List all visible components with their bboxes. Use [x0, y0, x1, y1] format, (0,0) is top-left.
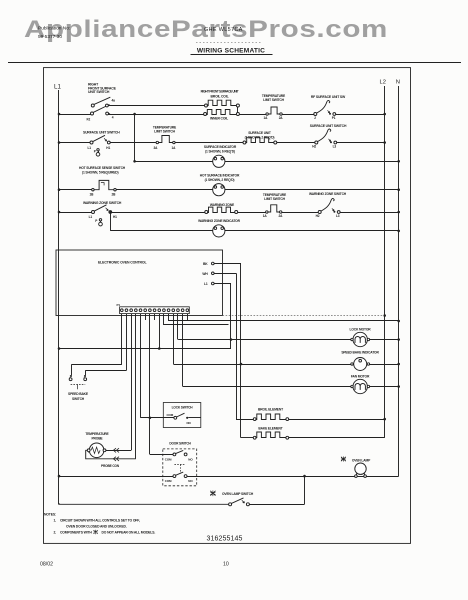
svg-text:SPEED BAKE: SPEED BAKE [68, 392, 89, 396]
svg-text:GHE WL57CA: GHE WL57CA [204, 27, 243, 33]
footer date [40, 562, 53, 568]
wire L1 rail [58, 90, 60, 504]
svg-text:INNER COIL: INNER COIL [210, 116, 228, 120]
svg-text:TEMPERATURE: TEMPERATURE [85, 432, 109, 436]
wire coil to limit switch row5 [238, 212, 266, 214]
wire speed bake contact B [85, 370, 87, 375]
connector probe lower [113, 457, 119, 461]
lamp oven lamp [355, 463, 367, 477]
terminal WH [202, 272, 214, 276]
wire L1 rail to eoc L1 [58, 347, 231, 350]
svg-text:LIMIT SWITCH: LIMIT SWITCH [264, 197, 285, 201]
wire drop stub t14 [187, 314, 189, 321]
label door switch [169, 442, 191, 446]
svg-text:N: N [396, 80, 400, 86]
terminal P stub row2 [96, 149, 100, 157]
svg-text:BAKE ELEMENT: BAKE ELEMENT [258, 427, 282, 431]
wire coil merge [237, 107, 239, 113]
wire L1 to sense switch [58, 188, 92, 191]
wire BK to drop [214, 263, 241, 265]
svg-text:BK: BK [203, 262, 208, 266]
wire drop to speed bake indicator row [173, 314, 175, 365]
wire lamp branch vertical [304, 476, 306, 504]
label temperature probe [85, 432, 109, 440]
wire door switch to N [187, 476, 399, 478]
svg-text:L3: L3 [333, 145, 337, 149]
wire BK corner to bake [241, 437, 253, 439]
wire drop to fan motor row [182, 314, 184, 387]
wire drop WH vertical [236, 273, 238, 419]
svg-text:WARNING ZONE INDICATOR: WARNING ZONE INDICATOR [198, 219, 240, 223]
switch surface unit switch L1-P-H1 [88, 135, 111, 153]
svg-text:F2: F2 [87, 117, 91, 121]
svg-text:Publication No:: Publication No: [38, 26, 70, 32]
svg-text:LIMIT SWITCH: LIMIT SWITCH [154, 130, 175, 134]
label lock switch [172, 406, 194, 410]
svg-text:P1: P1 [332, 116, 336, 120]
junction lock-door feed [149, 417, 152, 420]
label warning zone switch right [309, 192, 347, 196]
lamp surface indicator [213, 155, 225, 167]
svg-text:10: 10 [223, 562, 229, 568]
svg-text:WH: WH [202, 272, 208, 276]
svg-text:PROBE: PROBE [92, 437, 104, 441]
wire switch to inner coil [109, 114, 204, 115]
wire WH to drop [214, 273, 236, 275]
heater inner coil [204, 110, 240, 116]
svg-text:H1: H1 [106, 146, 110, 150]
switch oven lamp switch [229, 498, 250, 506]
label inner coil [210, 116, 228, 120]
wire L1 eoc to drop [214, 283, 231, 285]
svg-text:WARNING ZONE: WARNING ZONE [210, 203, 235, 207]
publication number text [38, 26, 70, 41]
terminal BK [203, 262, 214, 266]
switch door switch lower [165, 472, 194, 483]
junction oven lamp switch branch [303, 475, 306, 478]
label temperature limit switch row2 [153, 126, 177, 134]
wire coils to limit switch [239, 114, 265, 116]
svg-text:COM: COM [165, 479, 172, 483]
svg-text:59 5377 30: 59 5377 30 [38, 34, 62, 40]
part number 316255145 [207, 536, 243, 543]
label hot surface indicator [200, 174, 240, 182]
switch door switch upper [165, 450, 194, 461]
motor lock motor [351, 332, 370, 346]
wire sense switch to hot surface indicator [116, 189, 213, 191]
wire L1 to switch F2 [58, 113, 91, 116]
wire limit switch to surface unit coil [175, 142, 243, 144]
wire broil to L2 [289, 418, 386, 421]
wire switch to broil coil [108, 105, 204, 107]
model number text [204, 27, 243, 33]
label oven lamp [352, 458, 371, 462]
connector strip P1 [117, 303, 190, 314]
wire dashed eoc to L2 [223, 314, 387, 317]
wire N rail [398, 86, 400, 476]
wire drop to N row [169, 314, 401, 323]
wire speed bake indicator row [173, 363, 400, 366]
svg-text:L1: L1 [204, 282, 208, 286]
junction speed bake row [240, 363, 243, 366]
wire drop to row3 [134, 114, 136, 161]
wire H1 to warning zone coil [112, 212, 205, 214]
resistor temperature probe [87, 443, 106, 458]
terminal P stub row5 [99, 219, 103, 226]
wire row6 from H1 drop [111, 230, 213, 232]
svg-text:L3: L3 [336, 214, 340, 218]
node L2 label [380, 80, 386, 86]
svg-text:OVEN LAMP: OVEN LAMP [352, 458, 371, 462]
label surface unit switch right [310, 124, 347, 128]
svg-text:RIGHT FRONT SURFACE UNIT: RIGHT FRONT SURFACE UNIT [201, 89, 239, 93]
lock switch box [163, 403, 201, 428]
wire L1 to door switch [59, 476, 173, 478]
switch F2 right front surface unit switch [87, 97, 116, 121]
heater warning zone coil [205, 207, 238, 213]
svg-text:4a: 4a [112, 99, 116, 103]
svg-text:LOCK SWITCH: LOCK SWITCH [172, 406, 194, 410]
switch surface unit switch H2-L3 [312, 129, 336, 149]
junction lock motor row [230, 338, 233, 341]
svg-text:2.: 2. [54, 531, 57, 535]
wire drop door switch feed [150, 314, 174, 455]
label right front surface unit broil coil [201, 89, 239, 98]
notes text [44, 512, 155, 534]
svg-text:LOCK MOTOR: LOCK MOTOR [350, 328, 372, 332]
wire to L2 row2 [337, 141, 386, 144]
svg-text:OVEN LAMP SWITCH: OVEN LAMP SWITCH [222, 492, 254, 496]
svg-text:WARNING ZONE SWITCH: WARNING ZONE SWITCH [309, 192, 347, 196]
wire drop lock switch feed [141, 314, 174, 418]
svg-text:SURFACE INDICATOR: SURFACE INDICATOR [204, 145, 237, 149]
connector probe upper [113, 448, 119, 452]
label bake element [258, 427, 282, 431]
svg-text:OVEN DOOR CLOSED AND UNLOCKED.: OVEN DOOR CLOSED AND UNLOCKED. [66, 524, 127, 528]
label temperature limit switch row5 [263, 193, 287, 201]
label speed bake indicator [341, 350, 379, 354]
svg-text:L2: L2 [380, 80, 386, 86]
label broil element [258, 407, 283, 411]
label surface indicator [204, 145, 237, 153]
heater bake element [253, 432, 288, 439]
wire drop probe upper [131, 314, 133, 451]
link door switch [174, 464, 185, 473]
switch RF surface unit sw [314, 101, 336, 120]
label hot surface sense switch [79, 166, 126, 174]
door switch box [163, 449, 197, 486]
svg-text:RF SURFACE UNIT SW: RF SURFACE UNIT SW [311, 95, 346, 99]
schematic border frame [44, 68, 411, 544]
junction L1 bottom wire [58, 475, 61, 478]
terminal L1 eoc [204, 282, 214, 286]
wire drop to L1 eoc wire [159, 314, 161, 349]
svg-text:(1 SHOWN, 2 REQ'D): (1 SHOWN, 2 REQ'D) [205, 178, 235, 182]
heater broil element [253, 414, 288, 421]
wire drop probe lower [135, 314, 137, 459]
svg-text:SWITCH: SWITCH [72, 397, 85, 401]
svg-text:PROBE CON: PROBE CON [101, 464, 120, 468]
wire limit switch to RF switch [282, 114, 314, 116]
wire drop stub t7 [154, 314, 156, 321]
link speed bake switch [71, 384, 86, 389]
svg-text:L1: L1 [54, 84, 61, 91]
footer page number [223, 562, 229, 568]
wire to N row5 [340, 211, 400, 214]
svg-text:WARNING ZONE SWITCH: WARNING ZONE SWITCH [83, 201, 122, 205]
label warning zone switch left [83, 201, 122, 205]
wire row3 to indicator [135, 161, 213, 163]
svg-text:L1: L1 [89, 215, 93, 219]
label probe con [101, 464, 120, 468]
switch warning zone switch H2-L3 [316, 199, 341, 218]
wire limit switch to warning zone switch right [282, 212, 318, 214]
watermark AppliancePartsPros.com [24, 17, 388, 43]
svg-text:WIRING SCHEMATIC: WIRING SCHEMATIC [197, 48, 265, 55]
svg-text:COM: COM [167, 413, 174, 417]
svg-text:316255145: 316255145 [207, 536, 243, 543]
svg-text:SURFACE UNIT SWITCH: SURFACE UNIT SWITCH [310, 124, 347, 128]
svg-text:P1: P1 [117, 303, 121, 307]
wire drop L1 eoc vertical [230, 284, 232, 349]
header rule [8, 62, 461, 64]
wire drop BK vertical [240, 264, 242, 438]
junction H1 drop row6 [109, 211, 111, 213]
heater surface unit coil [243, 137, 277, 144]
switch speed bake switch [69, 375, 86, 380]
svg-text:BROIL ELEMENT: BROIL ELEMENT [258, 407, 283, 411]
wire drop to mid stub [164, 314, 229, 326]
lamp warning zone indicator [213, 225, 225, 237]
svg-text:DOOR SWITCH: DOOR SWITCH [169, 442, 191, 446]
asterisk oven lamp [341, 457, 346, 462]
svg-text:DO NOT APPEAR ON ALL MODELS.: DO NOT APPEAR ON ALL MODELS. [102, 531, 156, 535]
wire WH corner to broil [236, 419, 253, 421]
wire indicator to N row4 [225, 188, 400, 191]
svg-text:BROIL COIL: BROIL COIL [210, 95, 228, 99]
label warning zone coil [210, 203, 235, 207]
svg-text:H2: H2 [312, 145, 316, 149]
lamp speed bake indicator [351, 358, 370, 371]
svg-text:FAN MOTOR: FAN MOTOR [351, 375, 370, 379]
wire lamp switch to branch [249, 504, 304, 506]
wire drop speed bake B [85, 314, 126, 371]
wire probe lower [86, 450, 136, 459]
wire RF switch to L2 [336, 113, 386, 116]
label surface unit switch row2 [83, 131, 120, 135]
junction row3 start [133, 160, 136, 163]
asterisk oven lamp switch [210, 491, 215, 497]
label right front surface unit switch [88, 83, 117, 95]
svg-text:COM: COM [165, 457, 172, 461]
node N label [396, 80, 400, 86]
svg-text:ELECTRONIC OVEN CONTROL: ELECTRONIC OVEN CONTROL [98, 261, 147, 265]
svg-text:CIRCUIT SHOWN WITH ALL CONTROL: CIRCUIT SHOWN WITH ALL CONTROLS SET TO O… [60, 518, 140, 522]
wire lock motor row [178, 338, 400, 341]
thermostat temperature limit switch row2 [154, 136, 177, 150]
svg-text:UNIT SWITCH: UNIT SWITCH [88, 90, 110, 94]
wire fan motor row [183, 385, 400, 388]
svg-text:H2: H2 [316, 214, 320, 218]
svg-text:SURFACE UNIT: SURFACE UNIT [248, 131, 271, 135]
svg-text:1.: 1. [54, 518, 57, 522]
wire drop to lock motor row [177, 314, 179, 340]
heater broil coil [205, 100, 240, 107]
wire drop row5 to row6 [110, 212, 112, 231]
wire probe upper [106, 450, 131, 452]
electronic oven control box [56, 250, 223, 316]
thermostat temperature limit switch row5 [263, 205, 283, 218]
label warning zone indicator [198, 219, 240, 223]
wire drop stub t5 [145, 314, 147, 321]
svg-text:08/02: 08/02 [40, 562, 53, 568]
wire L1 corner to lamp switch [59, 503, 229, 504]
label electronic oven control [98, 261, 147, 265]
title WIRING SCHEMATIC [191, 48, 273, 55]
svg-text:SPEED BAKE INDICATOR: SPEED BAKE INDICATOR [341, 350, 379, 354]
label fan motor [351, 375, 370, 379]
switch warning zone switch L1-P-H1 [89, 205, 118, 223]
junction row1 drop [133, 113, 136, 116]
svg-text:HOT SURFACE INDICATOR: HOT SURFACE INDICATOR [200, 174, 240, 178]
wire indicator to N row3 [225, 160, 400, 163]
wire H1 to limit switch row2 [110, 142, 156, 144]
svg-text:(1 SHOWN, 6 REQ'D): (1 SHOWN, 6 REQ'D) [205, 149, 235, 153]
svg-text:L1: L1 [88, 146, 92, 150]
switch lock switch [167, 413, 201, 425]
motor fan motor [351, 379, 370, 393]
wire drop speed bake A [71, 314, 122, 365]
wire L1 to warning zone switch [58, 211, 92, 214]
wire speed bake contact A [71, 365, 73, 376]
dotted line under model [196, 42, 262, 44]
thermostat temperature limit switch row1 [264, 107, 284, 120]
label surface unit coil [245, 131, 275, 139]
svg-text:LIMIT SWITCH: LIMIT SWITCH [263, 98, 284, 102]
label temperature limit switch row1 [262, 94, 286, 102]
svg-text:COMPONENTS WITH: COMPONENTS WITH [60, 531, 92, 535]
svg-text:SURFACE UNIT SWITCH: SURFACE UNIT SWITCH [83, 131, 120, 135]
lamp hot surface indicator [213, 184, 225, 196]
label speed bake switch [68, 392, 89, 401]
wire L2 rail [384, 86, 386, 438]
label lock motor [350, 328, 372, 332]
svg-text:(1 SHOWN, 5 REQUIRED): (1 SHOWN, 5 REQUIRED) [82, 170, 118, 174]
label RF surface unit sw [311, 95, 346, 99]
node L1 label [54, 84, 61, 91]
wire L1 to surface unit switch [58, 141, 90, 144]
svg-text:NOTES:: NOTES: [44, 512, 56, 516]
wire indicator to N row6 [225, 230, 400, 233]
junction drop to L1 eoc wire [158, 347, 161, 350]
label oven lamp switch [222, 492, 254, 496]
wire bake to L2 end [289, 437, 385, 439]
wire coil to surface unit switch right [277, 142, 315, 144]
thermostat hot surface sense switch [90, 180, 117, 196]
svg-text:H1: H1 [113, 215, 117, 219]
